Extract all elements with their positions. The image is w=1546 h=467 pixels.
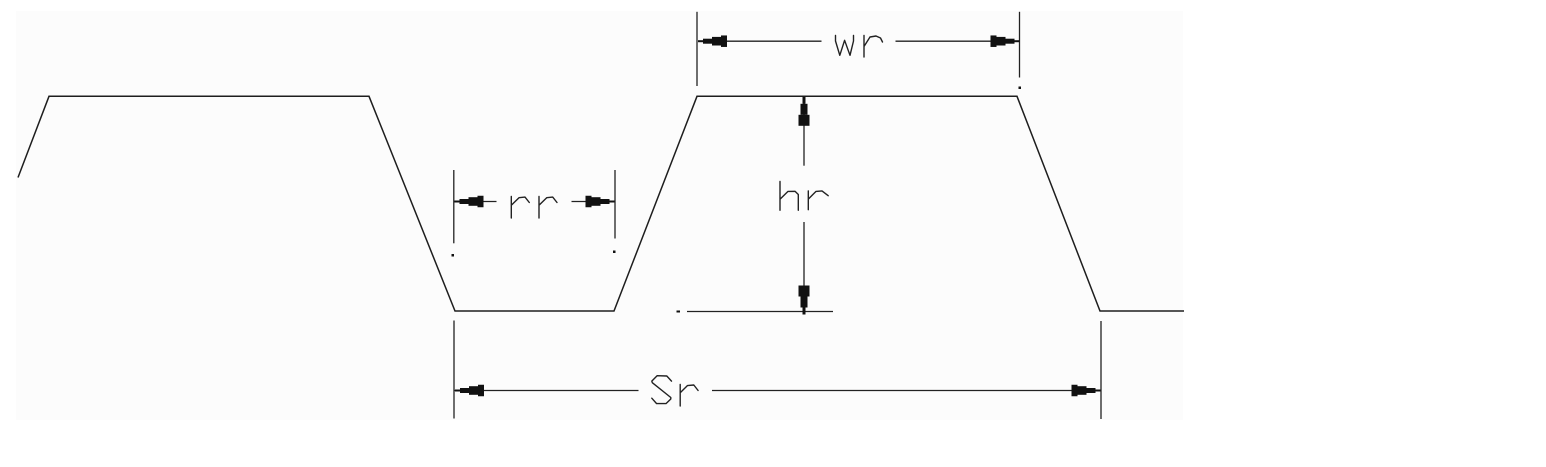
wr right extension line [1019, 12, 1021, 78]
wr dimension line right segment [896, 40, 996, 42]
Sr right extension line [1100, 321, 1102, 419]
deck profile outline [18, 96, 1184, 311]
label "wr" : w glyph [836, 36, 854, 56]
rr right arrowhead (points right) [586, 196, 615, 208]
Sr left arrowhead (points left) [455, 385, 484, 397]
rr left extension line [453, 170, 455, 243]
label "Sr" : S glyph [652, 376, 672, 404]
wr left extension line [696, 12, 698, 86]
hr bottom arrowhead (points down) [799, 286, 810, 315]
Sr dimension line left segment [454, 390, 639, 392]
rr dimension line right segment [572, 201, 616, 203]
rr left arrowhead (points left) [455, 196, 484, 208]
Sr right arrowhead (points right) [1072, 385, 1101, 397]
extension-line dot below rr right extension [613, 251, 616, 254]
rr dimension line left segment [454, 201, 497, 203]
label "hr" : r glyph [808, 191, 828, 210]
rr right extension line [614, 170, 616, 239]
hr top arrowhead (points up) [799, 97, 810, 126]
label "Sr" : r glyph [680, 385, 698, 407]
hr bottom reference line [687, 311, 833, 313]
extension-line dot below rr left extension [452, 254, 455, 257]
dash-dot left of hr reference line [677, 311, 681, 313]
label "wr" : r glyph [864, 36, 883, 58]
extension-line dot below wr right extension [1019, 87, 1022, 90]
wr left arrowhead (points left) [698, 35, 727, 47]
Sr dimension line right segment [712, 390, 1101, 392]
label "rr" : first r glyph [511, 197, 529, 219]
scanned drawing background [16, 11, 1183, 420]
wr right arrowhead (points right) [991, 35, 1020, 47]
label "rr" : second r glyph [539, 197, 557, 219]
wr dimension line left segment [723, 40, 822, 42]
hr dimension line lower segment [803, 222, 805, 311]
hr dimension line upper segment [803, 97, 805, 166]
Sr left extension line [453, 321, 455, 419]
label "hr" : h glyph [780, 182, 798, 211]
